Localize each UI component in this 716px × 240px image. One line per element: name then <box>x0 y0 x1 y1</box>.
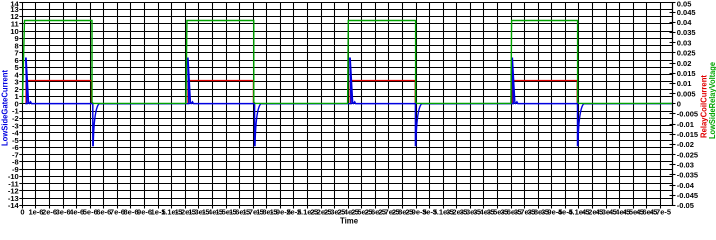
svg-text:-0.04: -0.04 <box>677 181 695 190</box>
svg-text:-0.045: -0.045 <box>677 191 698 200</box>
svg-text:-0.005: -0.005 <box>677 110 698 119</box>
svg-text:0.005: 0.005 <box>677 89 696 98</box>
plot right border <box>672 2 674 206</box>
svg-text:0.045: 0.045 <box>677 8 696 17</box>
svg-text:0.03: 0.03 <box>677 38 692 47</box>
svg-text:RelayCoilCurrent: RelayCoilCurrent <box>700 75 709 138</box>
svg-text:0.035: 0.035 <box>677 28 696 37</box>
svg-text:-0.01: -0.01 <box>677 120 694 129</box>
bottom axis ticks <box>23 206 661 209</box>
trace: relay voltage square wave (green) <box>22 21 672 104</box>
svg-text:0.04: 0.04 <box>677 18 692 27</box>
svg-text:0: 0 <box>20 208 24 217</box>
svg-text:Time: Time <box>340 217 359 226</box>
svg-text:LowSideRelayVoltage: LowSideRelayVoltage <box>708 61 716 139</box>
svg-text:-0.02: -0.02 <box>677 140 694 149</box>
svg-text:0.025: 0.025 <box>677 49 696 58</box>
x axis time labels 0..4.7e-5 <box>20 208 671 217</box>
svg-text:0.015: 0.015 <box>677 69 696 78</box>
trace: relay coil current (red) <box>26 81 577 104</box>
svg-text:LowSideGateCurrent: LowSideGateCurrent <box>1 70 10 146</box>
trace: gate current (blue) <box>25 58 672 145</box>
svg-text:-0.03: -0.03 <box>677 161 694 170</box>
right axis value labels 0.05..-0.05 <box>677 0 698 210</box>
svg-text:-0.035: -0.035 <box>677 171 698 180</box>
svg-text:4.7e-5: 4.7e-5 <box>650 208 671 217</box>
svg-text:-0.05: -0.05 <box>677 201 694 210</box>
left axis ticks <box>19 3 25 206</box>
grid horizontal lines <box>22 3 672 206</box>
left axis value labels 14..-14 <box>8 0 20 210</box>
svg-text:0.01: 0.01 <box>677 79 692 88</box>
svg-text:-0.015: -0.015 <box>677 130 698 139</box>
svg-text:-14: -14 <box>8 201 20 210</box>
grid vertical lines <box>23 2 661 206</box>
svg-text:-0.025: -0.025 <box>677 150 698 159</box>
right axis ticks <box>670 3 676 206</box>
svg-text:0: 0 <box>677 99 681 108</box>
svg-text:0.02: 0.02 <box>677 59 692 68</box>
